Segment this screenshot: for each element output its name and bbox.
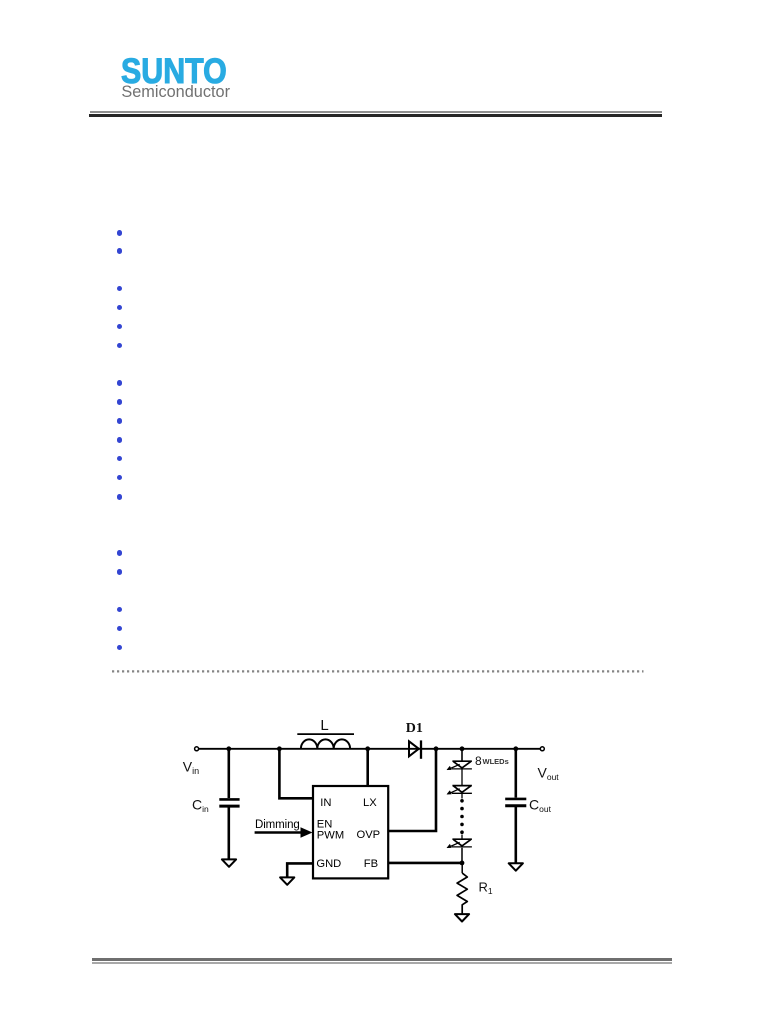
svg-text:L: L [320, 717, 328, 734]
svg-text:IN: IN [320, 797, 331, 809]
svg-text:D1: D1 [406, 721, 423, 736]
svg-text:PWM: PWM [317, 830, 344, 842]
svg-text:8: 8 [475, 754, 482, 768]
svg-text:LX: LX [363, 797, 377, 809]
svg-text:Dimming: Dimming [255, 819, 300, 831]
svg-text:Vout: Vout [538, 765, 560, 783]
svg-text:Vin: Vin [183, 759, 199, 776]
svg-text:OVP: OVP [357, 829, 381, 841]
svg-text:GND: GND [316, 858, 341, 870]
svg-text:R1: R1 [479, 880, 493, 897]
svg-text:FB: FB [364, 858, 378, 870]
svg-text:Cin: Cin [192, 797, 209, 815]
svg-text:WLEDs: WLEDs [483, 757, 509, 766]
svg-text:Cout: Cout [529, 797, 552, 815]
